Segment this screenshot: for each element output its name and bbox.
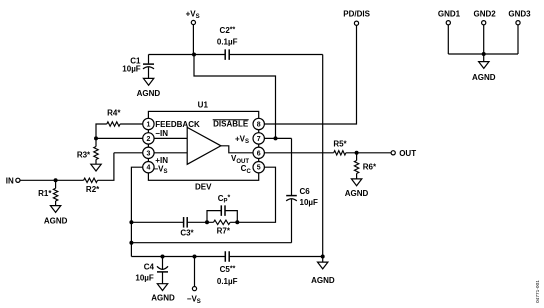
wire pin3 noninverting input <box>114 152 187 154</box>
junction input node <box>54 178 58 182</box>
junction inverting node <box>94 136 98 140</box>
wire bottom rail ground stub <box>322 257 324 263</box>
wire bottom rail right <box>229 256 323 258</box>
svg-text:7: 7 <box>257 136 261 143</box>
svg-text:10µF: 10µF <box>300 198 319 207</box>
pin 7 of U1 <box>253 133 264 144</box>
capacitor C2 <box>224 49 226 60</box>
junction Cc row left <box>129 220 133 224</box>
svg-text:AGND: AGND <box>137 89 161 98</box>
wire GND bus <box>448 53 518 55</box>
svg-text:0.1µF: 0.1µF <box>217 37 238 46</box>
capacitor C5 <box>224 251 226 262</box>
junction -Vs rail C6 tap <box>129 241 133 245</box>
ground AGND under R1 <box>50 206 60 213</box>
wire C2 ground drop <box>322 55 324 257</box>
svg-text:AGND: AGND <box>311 276 335 285</box>
wire +Vs rail right segment <box>229 54 323 56</box>
svg-text:10µF: 10µF <box>122 65 141 74</box>
svg-text:5: 5 <box>257 165 261 172</box>
wire Cc row to pin5 <box>230 167 275 222</box>
svg-text:R7*: R7* <box>217 226 231 235</box>
svg-text:R4*: R4* <box>107 109 121 118</box>
ground AGND under GND bus <box>479 62 489 69</box>
svg-text:C6: C6 <box>300 187 311 196</box>
ground AGND under C4 <box>157 284 167 291</box>
pin 1 of U1 <box>143 118 154 129</box>
wire C3 to R7 <box>187 221 213 223</box>
wire amplifier output to pin6 <box>221 146 334 153</box>
svg-text:FEEDBACK: FEEDBACK <box>155 120 200 129</box>
svg-text:OUT: OUT <box>399 149 416 158</box>
resistor R6 <box>356 153 358 161</box>
svg-text:C3*: C3* <box>180 228 194 237</box>
svg-text:−IN: −IN <box>155 129 168 138</box>
resistor R7 <box>214 220 231 224</box>
resistor R3 <box>95 138 97 146</box>
svg-text:0.1µF: 0.1µF <box>217 277 238 286</box>
wire Cc row to C3 <box>131 221 183 223</box>
wire R2 to pin3 <box>98 153 114 181</box>
junction bottom rail ground <box>321 255 325 259</box>
junction R7 right <box>235 220 239 224</box>
pin 4 of U1 <box>143 162 154 173</box>
wire GND3 drop <box>517 25 519 54</box>
capacitor C4 <box>162 257 164 270</box>
wire GND2 drop <box>483 25 485 54</box>
wire pin4 to -Vs rail <box>131 167 148 256</box>
resistor R1 <box>55 180 57 188</box>
ground AGND under C1 <box>143 78 153 85</box>
capacitor Cp branch <box>207 211 221 223</box>
wire GND1 drop <box>447 25 449 54</box>
label pin8 DISABLE <box>213 119 249 121</box>
pin 2 of U1 <box>143 133 154 144</box>
svg-text:PD/DIS: PD/DIS <box>343 9 370 18</box>
svg-text:GND3: GND3 <box>508 9 531 18</box>
svg-text:AGND: AGND <box>44 217 68 226</box>
ground AGND bottom right <box>318 262 328 269</box>
svg-text:GND1: GND1 <box>438 9 461 18</box>
capacitor C1 <box>148 55 150 64</box>
resistor R2 <box>84 178 98 182</box>
wire -Vs bottom rail left <box>131 256 225 258</box>
pin 5 of U1 <box>253 162 264 173</box>
svg-text:DEV: DEV <box>195 183 212 192</box>
svg-text:3: 3 <box>146 150 150 157</box>
op-amp U1 package outline <box>148 111 258 180</box>
ground under R3 <box>91 164 101 171</box>
wire pin7 to C6 <box>259 137 292 139</box>
junction +Vs rail <box>192 53 196 57</box>
ground AGND under R6 <box>351 179 361 186</box>
svg-text:AGND: AGND <box>472 73 496 82</box>
wire R5 to OUT <box>346 152 391 154</box>
junction pin7 supply <box>274 136 278 140</box>
pin 8 of U1 <box>253 118 264 129</box>
junction R7 left <box>205 220 209 224</box>
svg-text:04771-001: 04771-001 <box>535 280 541 303</box>
svg-text:DISABLE: DISABLE <box>213 119 249 128</box>
svg-text:C4: C4 <box>144 262 155 271</box>
wire pin2 inverting input <box>96 137 187 139</box>
wire C6 to -Vs rail <box>131 242 291 244</box>
wire IN to R2 <box>20 179 84 181</box>
capacitor C6 <box>291 138 293 195</box>
wire -Vs terminal drop <box>194 257 196 287</box>
svg-text:10µF: 10µF <box>135 274 154 283</box>
svg-text:AGND: AGND <box>345 189 369 198</box>
wire +Vs feed to pin7 <box>194 55 276 139</box>
wire +Vs rail left segment <box>149 54 226 56</box>
svg-text:1: 1 <box>146 122 150 129</box>
svg-text:GND2: GND2 <box>473 9 496 18</box>
wire PD/DIS to pin8 <box>259 25 357 124</box>
svg-text:R5*: R5* <box>333 140 347 149</box>
resistor R5 <box>334 151 346 155</box>
junction output node <box>355 151 359 155</box>
junction -Vs tap <box>193 255 197 259</box>
svg-text:2: 2 <box>146 136 150 143</box>
svg-text:R1*: R1* <box>38 189 52 198</box>
svg-text:U1: U1 <box>198 101 209 110</box>
op-amp U1 amplifier triangle <box>187 127 221 164</box>
svg-text:IN: IN <box>6 177 14 186</box>
junction GND bus <box>482 52 486 56</box>
node -Vs supply terminal <box>192 287 196 291</box>
capacitor C3 <box>183 217 185 228</box>
junction C4 tap <box>161 255 165 259</box>
resistor R4 <box>120 123 148 125</box>
svg-text:8: 8 <box>257 122 261 129</box>
svg-text:4: 4 <box>146 165 150 172</box>
svg-text:AGND: AGND <box>151 294 175 303</box>
pin 3 of U1 <box>143 147 154 158</box>
svg-text:R3*: R3* <box>77 150 91 159</box>
wire GND bus ground stub <box>483 54 485 62</box>
wire +Vs terminal drop <box>192 25 194 55</box>
svg-text:R6*: R6* <box>363 163 377 172</box>
svg-text:6: 6 <box>257 150 261 157</box>
svg-text:R2*: R2* <box>86 185 100 194</box>
pin 6 of U1 <box>253 147 264 158</box>
node OUT terminal <box>391 151 395 155</box>
